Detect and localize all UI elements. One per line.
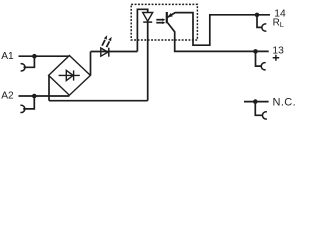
wire bridge minus riser	[48, 75, 50, 100]
wire A2 clamp drop	[23, 96, 34, 109]
polarity label plus	[273, 55, 280, 61]
terminal label 13	[272, 45, 284, 56]
optocoupler dashed box	[131, 4, 197, 40]
clamp hook A1	[21, 64, 25, 71]
wire N.C. clamp drop	[255, 102, 263, 116]
clamp hook N.C.	[262, 112, 266, 119]
terminal label A1	[1, 51, 14, 62]
wire opto LED anode feed	[137, 9, 147, 51]
wire bridge plus riser	[90, 52, 92, 76]
phototransistor emitter arrowhead	[167, 13, 172, 17]
wire opto LED cathode down to bottom return	[147, 22, 149, 101]
wire 13 clamp drop	[256, 51, 262, 66]
phototransistor emitter leg and collector wire to terminal 14	[167, 13, 270, 46]
svg-text:R: R	[273, 17, 280, 28]
wire N.C. stub	[244, 101, 269, 103]
svg-text:13: 13	[272, 45, 284, 56]
terminal label N.C.	[273, 97, 297, 109]
phototransistor base bar	[166, 12, 168, 23]
opto light arrow 2	[156, 22, 162, 24]
junction dot 13	[253, 49, 258, 54]
terminal label 14	[274, 9, 286, 20]
wire A1 clamp drop	[24, 56, 35, 67]
bridge rectifier diode lead	[59, 74, 80, 76]
svg-text:A1: A1	[1, 51, 14, 62]
wire bottom return	[49, 100, 148, 102]
opto light arrow 1	[156, 19, 162, 21]
clamp hook A2	[20, 105, 24, 112]
svg-text:L: L	[280, 20, 284, 29]
junction dot A2	[32, 94, 37, 99]
wire LED row	[91, 51, 138, 53]
opto LED cathode bar	[143, 21, 152, 23]
clamp hook 14	[262, 24, 266, 31]
opto LED triangle	[143, 13, 153, 22]
junction dot 14	[255, 13, 260, 18]
wire A2 input	[19, 95, 70, 97]
wire A1 input	[19, 55, 70, 57]
bridge rectifier diode triangle	[66, 70, 73, 80]
clamp hook 13	[261, 63, 265, 70]
junction dot A1	[32, 54, 37, 59]
junction dot N.C.	[253, 99, 258, 104]
bridge rectifier diamond	[49, 56, 91, 96]
LED indicator triangle	[101, 48, 108, 56]
bridge rectifier diode cathode bar	[73, 70, 75, 80]
svg-text:N.C.: N.C.	[273, 97, 297, 109]
LED indicator arrow 1	[102, 40, 105, 46]
wire 14 clamp drop	[257, 15, 262, 28]
terminal label A2	[1, 91, 14, 102]
LED indicator cathode bar	[108, 48, 110, 57]
load label RL	[273, 17, 284, 29]
LED indicator arrow 2	[107, 41, 110, 47]
svg-text:A2: A2	[1, 91, 14, 102]
phototransistor collector leg and wire to terminal 13	[168, 23, 269, 52]
